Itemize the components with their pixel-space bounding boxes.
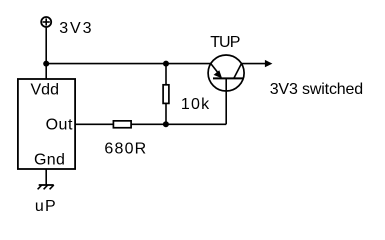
wire 3V3 top rail <box>46 63 211 65</box>
resistor R2 680R <box>113 121 131 128</box>
wire collector to output <box>241 63 267 65</box>
wire 680R to junction <box>131 123 166 125</box>
svg-text:Out: Out <box>46 117 73 134</box>
svg-text:680R: 680R <box>104 140 147 157</box>
ground <box>38 185 54 189</box>
svg-text:uP: uP <box>35 198 57 215</box>
svg-text:Gnd: Gnd <box>34 152 65 169</box>
resistor R1 10k <box>163 64 169 125</box>
transistor Q1 TUP (PNP) <box>208 55 244 91</box>
wire power symbol to rail junction <box>45 28 47 64</box>
wire Out pin to 680R <box>75 123 113 125</box>
uP block <box>18 79 75 169</box>
junction node at Vdd / 3V3 rail <box>43 61 49 67</box>
power symbol 3V3 <box>41 17 51 27</box>
svg-text:TUP: TUP <box>210 34 240 51</box>
collector <box>234 64 242 79</box>
junction node at base wire <box>163 121 169 127</box>
wire Gnd pin to ground <box>45 169 47 185</box>
svg-text:Vdd: Vdd <box>31 81 59 98</box>
junction node at 10k top <box>163 61 169 67</box>
wire rail junction to Vdd pin <box>45 64 47 79</box>
output arrowhead <box>265 60 273 67</box>
wire junction to base corner <box>166 123 226 125</box>
svg-text:3V3 switched: 3V3 switched <box>270 81 363 98</box>
emitter with arrow <box>211 64 218 73</box>
svg-text:3V3: 3V3 <box>59 20 93 37</box>
wire base lead <box>225 78 227 124</box>
svg-text:10k: 10k <box>181 96 210 113</box>
